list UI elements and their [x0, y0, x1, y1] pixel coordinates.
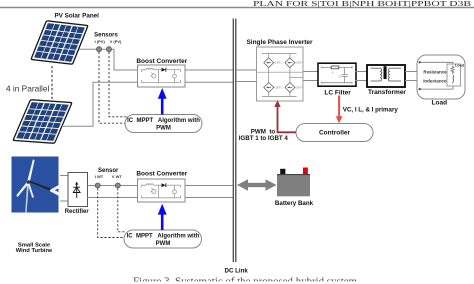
MPPT oval 2 — [124, 230, 202, 248]
dashed link between panels — [51, 66, 53, 99]
svg-text:V (PV): V (PV) — [110, 39, 122, 44]
svg-text:PLAN FOR S|TOI B|NPH BOHT|PPBO: PLAN FOR S|TOI B|NPH BOHT|PPBOT D3B — [253, 0, 471, 8]
label Boost Converter 2 — [136, 170, 187, 177]
DC link bus — [233, 19, 236, 263]
battery double arrow — [237, 179, 277, 191]
label DC Link — [225, 268, 249, 275]
sensor V PV — [107, 47, 112, 52]
rectifier box — [68, 173, 88, 207]
label Small Scale Wind Turbine — [16, 242, 53, 254]
svg-text:LC Filter: LC Filter — [324, 90, 351, 97]
svg-text:I WT: I WT — [95, 174, 104, 179]
svg-text:Sensors: Sensors — [94, 32, 118, 38]
label Transformer — [368, 89, 406, 96]
wire PV top rail — [80, 49, 138, 70]
svg-text:IGBT2: IGBT2 — [295, 61, 304, 65]
dashed sense line V WT — [118, 188, 126, 232]
svg-text:IGBT4: IGBT4 — [295, 85, 304, 89]
label Rectifier — [65, 209, 90, 215]
dashed sense line I WT — [98, 188, 125, 237]
svg-text:PV Solar Panel: PV Solar Panel — [54, 13, 99, 20]
wire turbine to rectifier — [60, 176, 68, 202]
controller oval — [296, 124, 373, 142]
label Load — [432, 100, 448, 107]
label Boost Converter 1 — [136, 58, 187, 65]
svg-text:Wind Turbine: Wind Turbine — [16, 248, 53, 254]
svg-text:PWM: PWM — [156, 241, 171, 247]
wire PV bottom rail — [62, 82, 138, 126]
label Sensor WT — [95, 168, 123, 179]
label VC IL I primary — [343, 106, 399, 113]
blue arrow PWM 2 — [158, 204, 167, 230]
svg-text:Single Phase Inverter: Single Phase Inverter — [246, 39, 313, 46]
wire boost2 to DC link top — [185, 185, 233, 187]
svg-text:Boost Converter: Boost Converter — [136, 58, 187, 65]
PV solar panel 1 — [30, 20, 89, 65]
wire inverter to LC filter — [303, 72, 318, 81]
svg-text:Controller: Controller — [319, 129, 351, 136]
wire DC link to inverter top — [236, 69, 257, 71]
svg-text:Rectifier: Rectifier — [65, 209, 90, 215]
wire transformer to load — [405, 72, 417, 81]
svg-text:IGBT3: IGBT3 — [274, 85, 283, 89]
header text — [253, 0, 471, 8]
wire rectifier to boost2 top — [88, 185, 138, 187]
svg-text:V WT: V WT — [112, 174, 123, 179]
load block — [417, 55, 465, 99]
sensor I PV — [97, 47, 102, 52]
svg-text:VC, I L, & I primary: VC, I L, & I primary — [343, 106, 399, 113]
wire boost1 to DC link top — [185, 69, 233, 71]
sensor V WT — [115, 183, 120, 188]
label Single Phase Inverter — [246, 39, 313, 46]
wire DC link to inverter bottom — [236, 81, 257, 83]
red sense arrow — [336, 96, 343, 124]
label Battery Bank — [275, 200, 314, 207]
battery bank — [277, 168, 310, 197]
label PWM to IGBT — [239, 129, 289, 143]
svg-text:IGBT1: IGBT1 — [274, 61, 283, 65]
boost converter 1 — [138, 65, 186, 87]
svg-text:Battery Bank: Battery Bank — [275, 200, 314, 207]
wire rectifier to boost2 bottom — [88, 197, 138, 199]
boost converter 2 — [138, 179, 186, 202]
label LC Filter — [324, 90, 351, 97]
svg-text:Load: Load — [432, 100, 448, 107]
caption — [100, 276, 400, 284]
single phase inverter — [257, 47, 304, 101]
svg-text:Inductance: Inductance — [423, 79, 447, 84]
svg-text:IGBT 1 to IGBT 4: IGBT 1 to IGBT 4 — [239, 135, 289, 142]
wind turbine image — [12, 157, 63, 213]
label 4 in Parallel — [6, 84, 50, 94]
maroon arrow head — [274, 100, 280, 107]
MPPT oval 1 — [125, 115, 202, 133]
transformer — [367, 65, 405, 87]
PV solar panel 2 — [12, 99, 73, 144]
maroon PWM feedback line — [278, 107, 297, 133]
LC filter — [318, 63, 356, 86]
svg-text:IC MPPT Algorithm with: IC MPPT Algorithm with — [127, 234, 200, 240]
svg-text:I (PV): I (PV) — [95, 39, 106, 44]
wire boost2 to DC link bottom — [185, 197, 233, 199]
dashed sense line I PV — [99, 52, 126, 123]
svg-text:IC MPPT Algorithm with: IC MPPT Algorithm with — [127, 118, 200, 124]
svg-text:Resistance: Resistance — [423, 69, 447, 74]
svg-text:4 in Parallel: 4 in Parallel — [6, 84, 50, 94]
svg-text:Boost Converter: Boost Converter — [136, 170, 187, 177]
blue arrow PWM 1 — [158, 88, 167, 115]
label PV Solar Panel — [54, 13, 99, 20]
svg-text:Transformer: Transformer — [368, 89, 406, 96]
dashed sense line V PV — [109, 52, 127, 117]
svg-text:L: L — [332, 70, 334, 74]
label Sensors — [94, 32, 122, 44]
wire LC filter to transformer — [356, 72, 368, 81]
sensor I WT — [95, 183, 100, 188]
wire boost1 to DC link bottom — [185, 81, 233, 83]
svg-text:PWM: PWM — [156, 125, 171, 131]
svg-text:DC Link: DC Link — [225, 268, 249, 275]
top rule — [0, 7, 474, 9]
svg-text:Load: Load — [455, 64, 465, 68]
